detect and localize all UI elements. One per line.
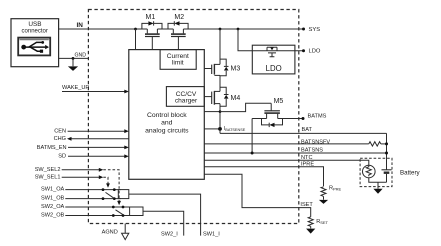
wire M5 gate path bbox=[220, 103, 271, 111]
wire LDO output to pin bbox=[252, 50, 303, 52]
battery label bbox=[400, 169, 421, 176]
junction rail to M3 bbox=[219, 28, 222, 31]
svg-text:Battery: Battery bbox=[400, 169, 421, 176]
svg-text:analog circuits: analog circuits bbox=[145, 127, 189, 134]
junction rail to control block bbox=[134, 28, 137, 31]
svg-text:SD: SD bbox=[58, 154, 66, 160]
svg-text:and: and bbox=[161, 120, 173, 127]
transistor M1 label bbox=[146, 14, 156, 21]
USB trident icon bbox=[21, 41, 49, 53]
svg-text:CEN: CEN bbox=[54, 129, 66, 135]
node IN label bbox=[77, 22, 84, 29]
svg-text:AGND: AGND bbox=[102, 230, 118, 236]
svg-text:SW2_OB: SW2_OB bbox=[41, 212, 65, 218]
wire BAT vertical to battery bbox=[386, 133, 388, 169]
svg-text:BATSENSE: BATSENSE bbox=[225, 128, 245, 132]
ground symbol at GND bbox=[72, 58, 74, 66]
svg-text:SW_SEL1: SW_SEL1 bbox=[35, 175, 61, 181]
pin SD bbox=[68, 155, 125, 157]
svg-text:BATMS: BATMS bbox=[308, 114, 327, 120]
pin SW_SEL2 bbox=[62, 169, 100, 171]
wire IPRE line bbox=[204, 167, 323, 187]
pin WAKE_UP bbox=[62, 91, 125, 93]
wire control block to battery sense node bbox=[204, 128, 220, 130]
transistor M4 bbox=[204, 87, 228, 106]
wire LDO input drop bbox=[238, 29, 252, 51]
ground symbol under RPRE bbox=[323, 196, 325, 199]
transistor M2 label bbox=[174, 14, 184, 21]
Control block bbox=[129, 50, 205, 180]
svg-text:PRE: PRE bbox=[333, 187, 342, 192]
IC dashed boundary box bbox=[88, 10, 298, 224]
svg-text:connector: connector bbox=[22, 29, 48, 35]
USB logo plate bbox=[18, 38, 50, 56]
svg-text:charger: charger bbox=[175, 98, 198, 105]
junction BATSNS-M5 bbox=[251, 152, 254, 155]
svg-text:BAT: BAT bbox=[302, 127, 313, 133]
wire BATSNSFV line bbox=[204, 143, 368, 145]
transistor M4 label bbox=[231, 95, 241, 102]
pin CHG bbox=[71, 138, 129, 140]
svg-text:SET: SET bbox=[320, 220, 328, 225]
transistor M2 bbox=[168, 21, 188, 49]
thermistor NTC bbox=[363, 165, 376, 178]
svg-text:GND: GND bbox=[75, 53, 87, 59]
node BAT label bbox=[302, 127, 313, 133]
svg-text:M2: M2 bbox=[174, 14, 184, 21]
svg-text:BATSNSFV: BATSNSFV bbox=[301, 140, 330, 146]
transistor M3 label bbox=[231, 66, 241, 73]
resistor RSET bbox=[308, 217, 313, 226]
svg-text:M5: M5 bbox=[274, 98, 284, 105]
AGND pin bbox=[102, 230, 118, 236]
LDO block label bbox=[266, 64, 282, 73]
pin SW_SEL1 bbox=[62, 176, 100, 178]
wire rail drop to M3 drain bbox=[219, 29, 221, 64]
svg-text:M1: M1 bbox=[146, 14, 156, 21]
wire control block to M4 source junction bbox=[204, 111, 220, 113]
wire M5 right terminal to BATMS pin bbox=[278, 118, 303, 120]
wire BAT line bbox=[220, 132, 387, 134]
pin SW2_OB bbox=[65, 215, 129, 217]
junction rail to LDO bbox=[237, 28, 240, 31]
transistor M5 label bbox=[274, 98, 284, 105]
switch SW1 pole box bbox=[118, 190, 129, 199]
wire BATSNS line bbox=[204, 152, 386, 154]
node GND label bbox=[75, 53, 87, 59]
switch SW2 blade bbox=[116, 210, 124, 215]
junction BATSNS-BAT bbox=[385, 152, 388, 155]
pin SW2_OA bbox=[65, 206, 129, 208]
resistor on BATSNSFV bbox=[369, 142, 381, 146]
svg-text:WAKE_UP: WAKE_UP bbox=[62, 85, 89, 91]
junction BATSNSFV-BAT bbox=[385, 142, 388, 145]
svg-text:limit: limit bbox=[172, 60, 184, 67]
wire battery bottom bbox=[369, 178, 387, 183]
svg-text:NTC: NTC bbox=[301, 155, 313, 161]
svg-text:ISET: ISET bbox=[300, 202, 313, 208]
USB logo shading bar bbox=[20, 39, 49, 41]
svg-text:SW_SEL2: SW_SEL2 bbox=[35, 167, 61, 173]
LDO pass transistor bbox=[267, 47, 277, 57]
wire SW2 common to SW2_I bbox=[143, 211, 184, 235]
svg-text:SW1_OA: SW1_OA bbox=[41, 186, 65, 192]
transistor M3 bbox=[204, 59, 228, 76]
svg-text:SW1_OB: SW1_OB bbox=[41, 195, 65, 201]
svg-text:SYS: SYS bbox=[309, 27, 321, 33]
wire ISET path bbox=[204, 174, 310, 217]
wire GND from USB to IC bbox=[59, 57, 89, 59]
svg-text:M4: M4 bbox=[231, 95, 241, 102]
node SYS pin bbox=[302, 28, 305, 31]
LDO block bbox=[252, 45, 295, 74]
pin CEN bbox=[68, 130, 125, 132]
USB connector box bbox=[11, 19, 59, 67]
node LDO pin bbox=[302, 49, 305, 52]
svg-text:CHG: CHG bbox=[54, 136, 66, 142]
CC/CV charger block bbox=[166, 87, 204, 107]
junction GND dot bbox=[72, 57, 75, 60]
svg-text:M3: M3 bbox=[231, 66, 241, 73]
svg-text:Control block: Control block bbox=[147, 112, 187, 119]
wire IN from USB to rail bbox=[59, 28, 148, 30]
node BATMS pin bbox=[302, 117, 305, 120]
battery cell bbox=[382, 170, 392, 183]
node IBATSENSE bbox=[218, 127, 222, 131]
wire NTC line bbox=[204, 160, 368, 166]
ground symbol under RSET bbox=[310, 226, 312, 228]
Current limit block bbox=[160, 50, 196, 70]
transistor M1 bbox=[142, 21, 162, 49]
wire M3 source to M4 drain bbox=[219, 75, 221, 91]
switch SW1 blade bbox=[106, 192, 114, 198]
pin SW1_OB bbox=[65, 198, 120, 200]
svg-text:SW2_I: SW2_I bbox=[161, 232, 178, 238]
svg-text:IN: IN bbox=[77, 22, 84, 29]
svg-text:SW1_I: SW1_I bbox=[203, 232, 220, 238]
pin SW1_OA bbox=[65, 189, 120, 191]
wire M4 source down bbox=[219, 104, 221, 134]
wire rail M2 to SYS pin bbox=[183, 28, 303, 30]
svg-text:IPRE: IPRE bbox=[301, 162, 314, 168]
svg-text:BATMS_EN: BATMS_EN bbox=[37, 145, 67, 151]
wire M5 left terminal bbox=[252, 118, 267, 120]
transistor M5 bbox=[262, 103, 283, 127]
svg-text:SW2_OA: SW2_OA bbox=[41, 204, 65, 210]
svg-text:BATSNS: BATSNS bbox=[301, 148, 323, 154]
svg-text:LDO: LDO bbox=[266, 64, 282, 73]
node SW2_I label bbox=[161, 232, 178, 238]
svg-text:LDO: LDO bbox=[309, 49, 321, 55]
USB connector label bbox=[22, 21, 48, 35]
ground symbol AGND open triangle bbox=[124, 224, 126, 234]
Control block label bbox=[145, 112, 189, 134]
node SW1_I label bbox=[203, 232, 220, 238]
junction M4 source node bbox=[219, 110, 222, 113]
battery dashed box bbox=[360, 158, 392, 186]
wire rail mid segment M1-M2 bbox=[157, 28, 173, 30]
wire SW1 common to SW1_I bbox=[129, 194, 201, 236]
pin BATMS_EN bbox=[68, 146, 125, 148]
resistor RPRE bbox=[321, 187, 326, 197]
wire M5 to BATSNS line bbox=[251, 119, 253, 154]
ground symbol battery bbox=[377, 182, 379, 188]
switch SW2 pole box bbox=[130, 207, 143, 216]
svg-text:USB: USB bbox=[28, 21, 41, 28]
wire rail drop to control block bbox=[135, 29, 137, 50]
